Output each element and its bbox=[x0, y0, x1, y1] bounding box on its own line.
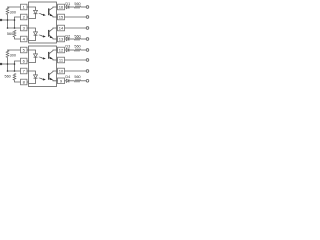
output terminal bbox=[86, 59, 89, 62]
pin 12 box (right) bbox=[57, 47, 65, 53]
opto phototransistor bbox=[49, 28, 57, 39]
resistor 560 (output) bbox=[74, 45, 80, 52]
input terminal (top) bbox=[0, 19, 2, 21]
opto light arrow bbox=[39, 78, 46, 81]
output terminal bbox=[86, 6, 89, 9]
pin 2 box (left) bbox=[21, 14, 29, 20]
wire output row bbox=[65, 16, 87, 18]
wire bus bottom bbox=[0, 63, 15, 65]
wire output row bbox=[65, 80, 67, 82]
output terminal bbox=[86, 80, 89, 83]
svg-text:D4: D4 bbox=[65, 75, 70, 79]
output terminal bbox=[86, 49, 89, 52]
svg-text:560: 560 bbox=[74, 75, 80, 79]
pin 5 box (left) bbox=[21, 47, 29, 53]
pin 6 box (left) bbox=[21, 58, 29, 64]
output terminal bbox=[86, 16, 89, 19]
resistor 560 R2 bbox=[13, 30, 16, 37]
pin 4 box (left) bbox=[21, 36, 29, 42]
pin 9 box (right) bbox=[57, 78, 65, 84]
wire output row bbox=[65, 6, 67, 8]
wire bus to pin3 row bbox=[8, 20, 21, 28]
svg-text:300: 300 bbox=[10, 10, 16, 14]
opto LED bbox=[29, 71, 38, 84]
resistor 560 (output) bbox=[74, 75, 80, 82]
opto light arrow bbox=[39, 13, 46, 16]
IC body U1a (channels 1-2) bbox=[29, 2, 57, 43]
opto light arrow bbox=[39, 35, 46, 38]
junction dots top bus bbox=[7, 19, 9, 21]
opto LED bbox=[29, 28, 38, 41]
wire bbox=[81, 38, 87, 40]
wire output row bbox=[65, 59, 87, 61]
wire bbox=[69, 6, 75, 8]
input terminal (bottom) bbox=[0, 63, 2, 65]
pin 3 box (left) bbox=[21, 25, 29, 31]
wire bbox=[81, 6, 87, 8]
svg-text:300: 300 bbox=[10, 53, 16, 57]
wire R4 to pin8 bbox=[15, 80, 21, 82]
svg-text:12: 12 bbox=[59, 48, 64, 53]
svg-text:560: 560 bbox=[74, 45, 80, 49]
wire bbox=[81, 80, 87, 82]
diode D3 bbox=[65, 45, 70, 52]
diode D1 bbox=[65, 2, 70, 9]
wire R1 to bus bbox=[7, 14, 9, 20]
output terminal bbox=[86, 27, 89, 30]
opto phototransistor bbox=[49, 71, 57, 81]
resistor 560 (output) bbox=[74, 34, 80, 40]
wire bus to pin7 row bbox=[8, 64, 21, 71]
pin 10 box (right) bbox=[57, 68, 65, 74]
pin 8 box (left) bbox=[21, 79, 29, 85]
opto LED bbox=[29, 50, 38, 63]
svg-text:10: 10 bbox=[59, 69, 64, 74]
svg-text:14: 14 bbox=[59, 26, 64, 31]
junction dots bottom bus bbox=[7, 63, 9, 65]
wire bbox=[69, 49, 75, 51]
pin 7 box (left) bbox=[21, 68, 29, 74]
opto LED bbox=[29, 7, 38, 19]
pin 13 box (right) bbox=[57, 36, 65, 42]
resistor 300 R3 bbox=[6, 50, 9, 57]
wire output row bbox=[65, 27, 87, 29]
pin 14 box (right) bbox=[57, 25, 65, 31]
wire bus top bbox=[0, 19, 15, 21]
svg-text:560: 560 bbox=[4, 74, 10, 78]
resistor 560 R4 bbox=[13, 73, 16, 80]
IC body U1b (channels 3-4) bbox=[29, 46, 57, 87]
wire pin6 leg bbox=[15, 61, 21, 71]
wire output row bbox=[65, 70, 87, 72]
wire pin5 to R3 bbox=[8, 49, 21, 51]
wire bbox=[81, 49, 87, 51]
diode D4 bbox=[65, 75, 70, 83]
output terminal bbox=[86, 70, 89, 73]
diode D2 bbox=[65, 34, 70, 40]
pin 1 box (left) bbox=[21, 4, 29, 10]
opto light arrow bbox=[39, 57, 46, 60]
svg-text:13: 13 bbox=[59, 37, 64, 42]
pin 16 box (right) bbox=[57, 4, 65, 10]
wire pin1 to R1 bbox=[8, 6, 21, 8]
svg-text:560: 560 bbox=[7, 32, 13, 36]
pin 15 box (right) bbox=[57, 14, 65, 20]
wire output row bbox=[65, 38, 67, 40]
wire R3 to bus bbox=[7, 57, 9, 64]
output terminal bbox=[86, 38, 89, 41]
wire R2 to pin4 bbox=[15, 37, 21, 39]
wire bbox=[69, 80, 75, 82]
opto phototransistor bbox=[49, 7, 57, 17]
wire pin2 leg bbox=[15, 17, 21, 28]
svg-text:15: 15 bbox=[59, 15, 64, 20]
wire output row bbox=[65, 49, 67, 51]
resistor 560 (output) bbox=[74, 2, 80, 8]
opto phototransistor bbox=[49, 50, 57, 60]
svg-text:16: 16 bbox=[59, 5, 64, 10]
wire bbox=[69, 38, 75, 40]
pin 11 box (right) bbox=[57, 57, 65, 63]
resistor 300 R1 bbox=[6, 7, 9, 14]
